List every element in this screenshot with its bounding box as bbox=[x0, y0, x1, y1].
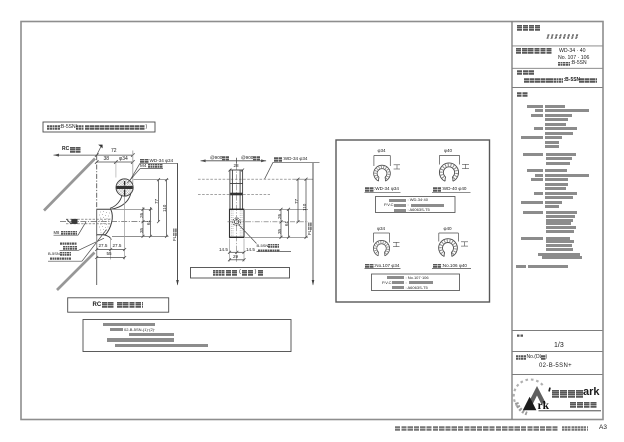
dim 29 bbox=[228, 258, 246, 261]
leader middle handrail label bbox=[265, 162, 320, 179]
file number value bbox=[539, 363, 572, 369]
bottom extension lines bbox=[230, 239, 245, 262]
spec text block 1 (WD-34/40 materials) bbox=[527, 105, 543, 108]
spec box No text bbox=[387, 276, 404, 279]
spec box WD text bbox=[389, 199, 406, 202]
clip No106 side dim bbox=[461, 242, 468, 246]
clip WD-34 dim bbox=[374, 156, 390, 167]
clip No107 label bbox=[365, 264, 374, 269]
section title box bbox=[68, 298, 169, 312]
clip WD-40 side dim bbox=[462, 164, 469, 168]
mid dim chain 77 bbox=[297, 178, 300, 224]
saddle dark band bbox=[230, 193, 242, 196]
washer cover label bbox=[60, 242, 77, 245]
clip WD-34 side dim bbox=[394, 165, 400, 169]
heading file no bbox=[516, 355, 526, 360]
dim 28 ticks bbox=[228, 169, 244, 172]
spec bottom line bbox=[516, 265, 526, 268]
detail box border bbox=[336, 140, 490, 302]
dim 29 bbox=[233, 255, 238, 260]
handrail label bbox=[140, 159, 149, 164]
leader M4 screw label bbox=[127, 169, 163, 184]
RC shitaji arrow bbox=[54, 154, 97, 157]
middle title box text bbox=[213, 270, 225, 276]
logo mountain A bbox=[528, 386, 546, 404]
bracket arm curves bbox=[110, 193, 131, 209]
clip No106 dim text bbox=[444, 227, 452, 232]
plate edge extension bbox=[110, 238, 112, 260]
pitch 900 line bbox=[201, 158, 267, 164]
rail hidden line top bbox=[198, 178, 313, 180]
rail centerline below bbox=[124, 197, 126, 260]
svg-text:rk: rk bbox=[538, 400, 550, 412]
clip No106 bbox=[439, 239, 458, 257]
dim chain 77 bbox=[157, 178, 160, 223]
base plate front bbox=[230, 209, 245, 237]
RC shitaji label bbox=[62, 147, 69, 152]
bracket column outline bbox=[230, 170, 243, 209]
rot dim 110 bbox=[163, 204, 168, 211]
leader handrail label bbox=[130, 163, 177, 180]
rot dim 77 bbox=[155, 198, 160, 203]
dim 55 bbox=[95, 256, 126, 259]
spec box No bbox=[372, 274, 460, 291]
logo underline bbox=[539, 410, 602, 412]
clip WD-40 dim text bbox=[444, 149, 452, 154]
middle right extension lines bbox=[245, 209, 308, 237]
corner datum triangle bbox=[97, 145, 103, 156]
pitch label right bbox=[241, 156, 253, 161]
dim chain 61 bbox=[149, 207, 152, 238]
pitch label left bbox=[210, 156, 222, 161]
mid rot FL made bbox=[308, 230, 313, 235]
rot FL made bbox=[173, 236, 178, 241]
mid dim chain 110 bbox=[305, 178, 308, 239]
dim chain 110 bbox=[165, 178, 168, 238]
rot dim 26 bbox=[140, 212, 145, 217]
heading shiyou bbox=[517, 92, 528, 97]
hole crosshair bbox=[228, 221, 247, 223]
mid bracket label bbox=[257, 244, 269, 248]
left title box text bbox=[93, 302, 102, 308]
dim 14.5 left bbox=[219, 248, 228, 253]
mid rot dim 35 bbox=[278, 228, 283, 233]
logo black triangle bbox=[523, 397, 537, 410]
dim text phi34 bbox=[119, 157, 128, 162]
B-5SN bracket label bbox=[48, 252, 60, 256]
dimension 72 line bbox=[95, 153, 135, 157]
logo apostrophe bbox=[548, 387, 551, 391]
label underlines top row bbox=[365, 191, 471, 193]
logo kabushiki gaisha bbox=[570, 402, 597, 409]
dim text 38 bbox=[104, 157, 110, 162]
heading hinban bbox=[516, 48, 552, 54]
middle title box bbox=[191, 268, 290, 279]
extension line rail left bbox=[115, 163, 117, 178]
rail hidden line bottom bbox=[198, 193, 270, 195]
clip No107 side dim bbox=[393, 242, 400, 246]
drawing name bbox=[524, 78, 551, 84]
handrail circle section bbox=[116, 179, 133, 196]
leader B-5SN bracket label bbox=[48, 230, 107, 262]
note box bbox=[83, 320, 291, 352]
clip WD-40 bbox=[439, 163, 458, 181]
mid dim chain 61 bbox=[287, 208, 290, 239]
dim 27.5 27.5 bbox=[99, 244, 108, 249]
part number lines bbox=[559, 49, 586, 54]
logo gear circle bbox=[514, 379, 543, 406]
clip No107 bbox=[373, 240, 389, 255]
dim chain 26/35 bbox=[142, 207, 145, 238]
mid rot dim 77 bbox=[295, 198, 300, 203]
middle FL reference line bbox=[312, 163, 315, 286]
spec order colors bbox=[521, 237, 543, 240]
label box bracket B-5SN bbox=[43, 122, 155, 132]
leader M8 anchor label bbox=[54, 222, 87, 235]
M8 anchor label bbox=[54, 231, 60, 235]
clip No106 dim bbox=[439, 233, 459, 242]
anchor centerline bbox=[60, 221, 152, 223]
leader washer cover label bbox=[60, 238, 105, 250]
wall face line lower bbox=[96, 209, 98, 285]
clip No107 dim bbox=[374, 233, 390, 243]
dim 14.5 right bbox=[246, 248, 255, 253]
clip WD-34 dim text bbox=[378, 149, 386, 154]
spec color rows 1 bbox=[523, 153, 543, 156]
dim 55 bbox=[107, 252, 112, 257]
wall plate section bbox=[97, 209, 113, 235]
logo company name atlas ark bbox=[552, 390, 583, 398]
bracket centerline vertical bbox=[236, 164, 238, 263]
note box text bbox=[103, 323, 155, 326]
wall break band upper bbox=[44, 159, 95, 211]
rot dim 61 bbox=[147, 220, 152, 225]
arc grip product name bbox=[546, 34, 578, 39]
clip No106 label bbox=[433, 264, 442, 269]
M8 anchor bolt end bbox=[67, 219, 78, 224]
serrated anchor hole bbox=[233, 218, 241, 226]
extension line rail right bbox=[132, 151, 134, 185]
dim 14.5 14.5 bbox=[228, 251, 246, 254]
spec text block 2 (No.107/106 materials) bbox=[527, 169, 543, 172]
FL reference line bbox=[176, 163, 179, 285]
spec color rows 2 bbox=[523, 211, 543, 214]
M4 screw label bbox=[140, 164, 146, 169]
scale value 1/3 bbox=[554, 342, 564, 349]
dim 28 bbox=[234, 164, 239, 169]
clip WD-40 label bbox=[433, 187, 442, 192]
rot dim 35 bbox=[140, 227, 145, 232]
anchor hidden dashes bbox=[66, 219, 112, 224]
dim 27.5 27.5 bbox=[95, 248, 126, 251]
title block row lines bbox=[512, 46, 603, 375]
mid dim chain 26/35 bbox=[280, 208, 283, 239]
leader to bracket label bbox=[239, 225, 292, 252]
mid rot dim 110 bbox=[303, 204, 308, 211]
heading shukushaku bbox=[517, 334, 524, 337]
mid handrail label bbox=[274, 157, 283, 162]
bracket label box text bbox=[47, 125, 60, 130]
mid rot dim 61 bbox=[285, 221, 290, 226]
spec box WD bbox=[376, 197, 456, 213]
heading shouhin-kubun bbox=[517, 25, 540, 31]
washer cover bbox=[104, 235, 112, 240]
label underlines bottom row bbox=[365, 268, 472, 270]
heading zumenmei bbox=[517, 70, 534, 75]
wall break band lower bbox=[57, 253, 95, 291]
wall face centerline upper bbox=[96, 155, 98, 209]
wall extension lower bbox=[96, 236, 98, 260]
mid rot dim 26 bbox=[278, 214, 283, 219]
clip WD-34 label bbox=[365, 187, 374, 192]
clip No107 dim text bbox=[377, 227, 385, 232]
title block divider bbox=[511, 22, 513, 420]
clip WD-34 bbox=[374, 165, 391, 181]
dim text 72 bbox=[111, 149, 117, 154]
dimension 38 phi34 line bbox=[95, 160, 135, 164]
right extension lines bbox=[112, 180, 169, 237]
clip WD-40 dim bbox=[439, 156, 459, 165]
